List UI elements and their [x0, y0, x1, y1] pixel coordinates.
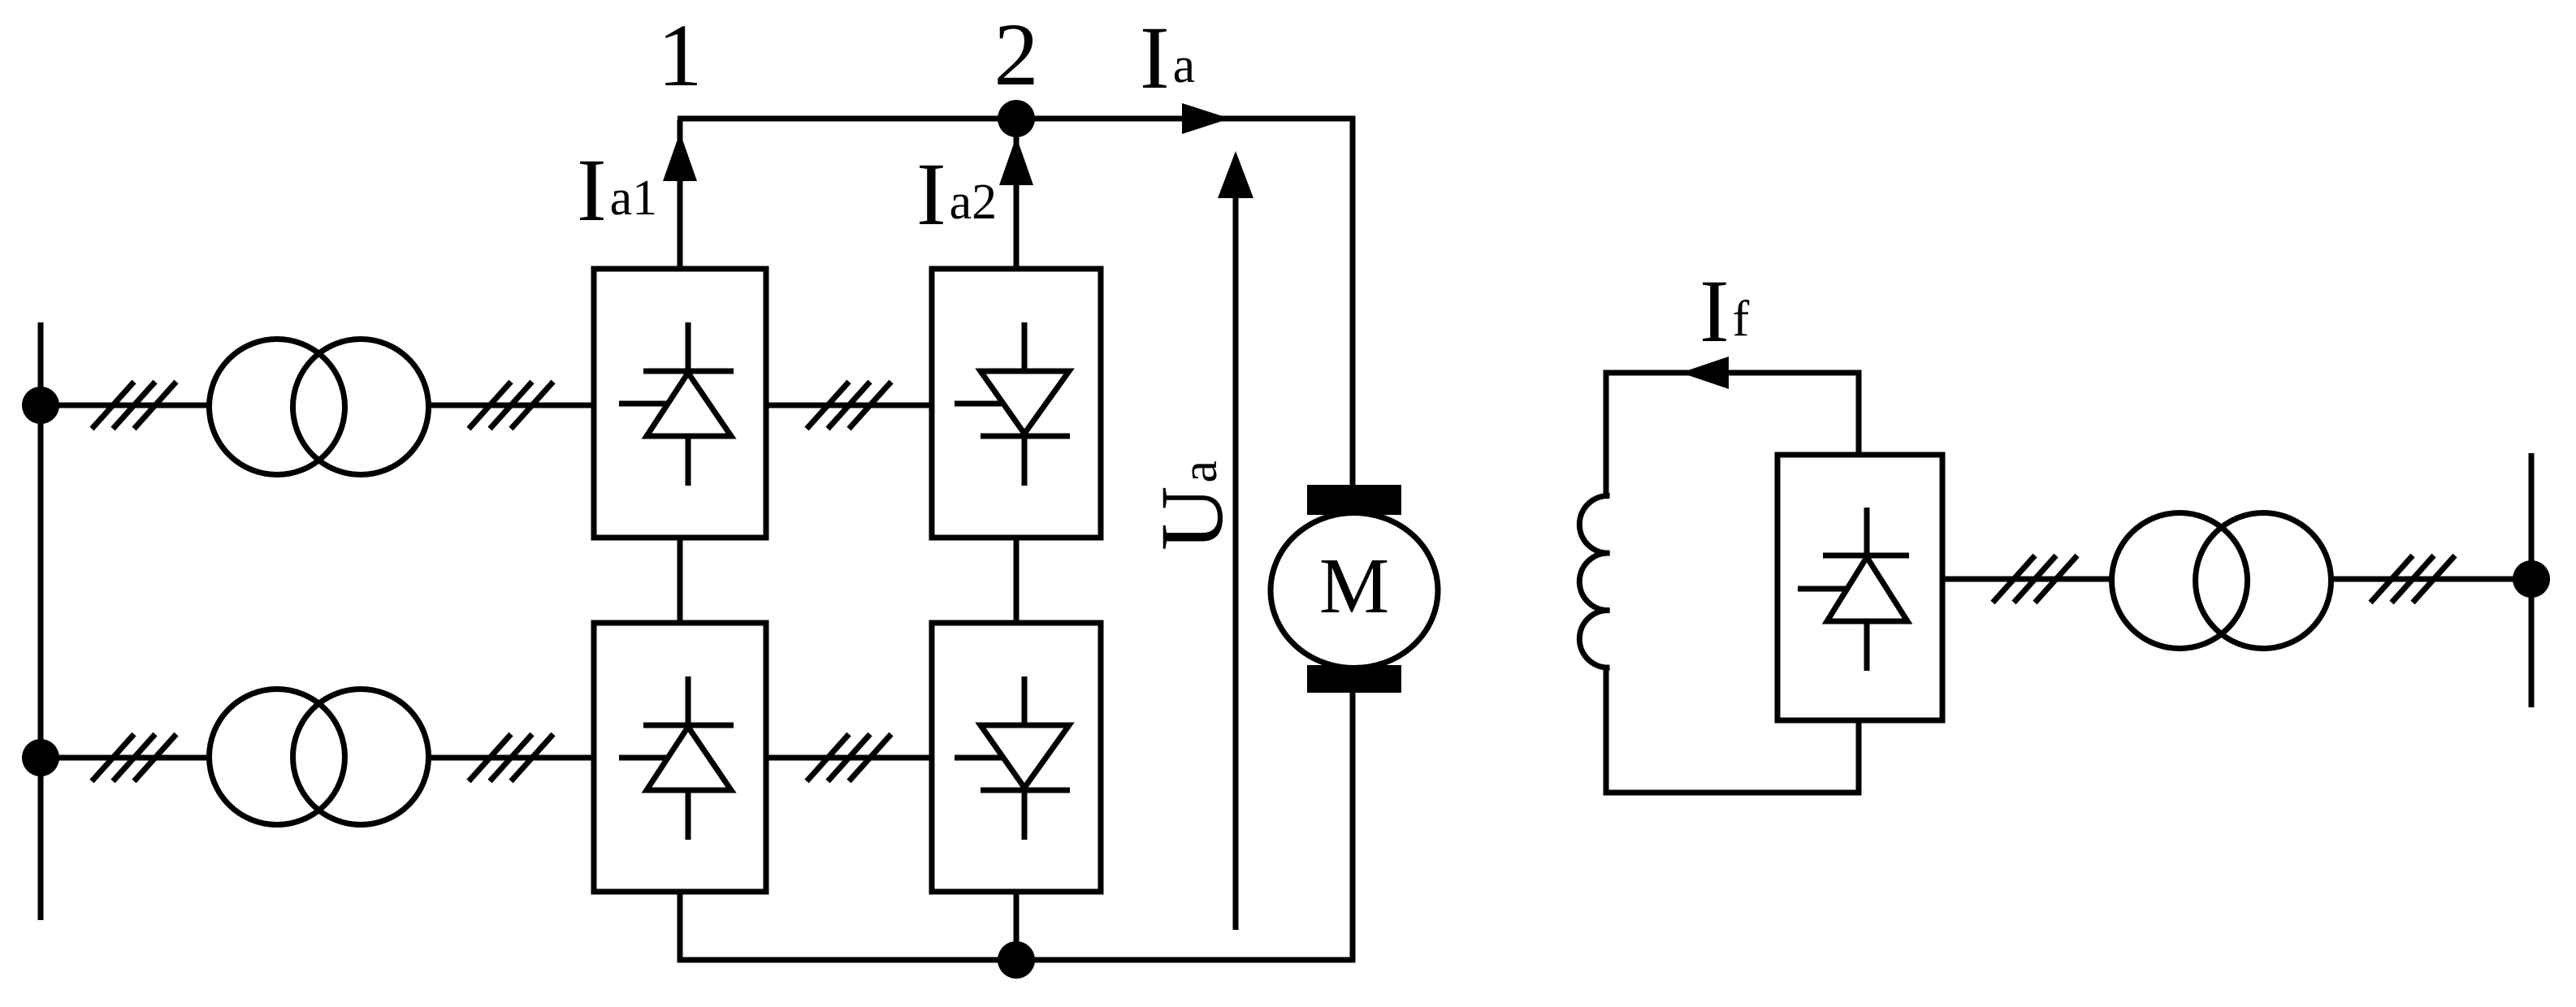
svg-text:1: 1: [658, 6, 703, 105]
converter block U1: [594, 269, 766, 538]
label Ia1: [577, 140, 657, 240]
thyristor U5 (pointing up): [1798, 508, 1909, 671]
wire field converter to right bus: [1942, 577, 2531, 582]
current arrow Ia2 (stem): [1014, 120, 1020, 269]
node label 1: [658, 6, 703, 105]
wire converter2-converter4 link: [1014, 538, 1020, 623]
motor label M: [1319, 542, 1389, 629]
junction dot left bus top: [22, 387, 59, 424]
wire converter1-converter3 link: [678, 538, 683, 623]
label Ia2: [916, 145, 997, 244]
hash marks (3-phase) T3-right bus: [2370, 555, 2455, 603]
motor brush top: [1307, 485, 1401, 515]
hash marks (3-phase) field converter-T3: [1993, 555, 2077, 603]
converter block U3: [594, 623, 766, 892]
hash marks (3-phase) converter1-converter2: [807, 382, 891, 429]
junction dot bottom wire: [998, 941, 1035, 979]
thyristor U4 (pointing down): [955, 676, 1070, 840]
label If: [1699, 261, 1750, 361]
transformer T3 (field): [2112, 513, 2331, 649]
junction dot right bus: [2513, 560, 2550, 598]
voltage arrow Ua (head): [1218, 151, 1253, 198]
hash marks (3-phase) bus-T2: [92, 734, 176, 781]
wire bus to converter 3 row (bottom): [41, 755, 594, 761]
junction dot left bus bottom: [22, 739, 59, 776]
label Ua (rotated): [1142, 460, 1241, 551]
motor brush bottom: [1307, 665, 1401, 693]
svg-text:2: 2: [994, 5, 1039, 104]
transformer T1 (top): [210, 339, 429, 475]
field loop wire with inductor (field winding): [1579, 373, 1859, 793]
hash marks (3-phase) bus-T1: [92, 382, 176, 429]
current arrow If (head): [1681, 357, 1729, 389]
wire converter 3 to converter 4: [766, 755, 932, 761]
wire bus to converter 1 row (top): [41, 403, 594, 408]
label Ia: [1140, 8, 1195, 107]
armature loop wire: converter bottoms to motor: [678, 119, 1353, 960]
field converter block U5: [1777, 455, 1942, 720]
hash marks (3-phase) T2-converter3: [469, 734, 553, 781]
thyristor U2 (pointing down): [955, 322, 1070, 486]
converter block U2: [932, 269, 1101, 538]
left AC bus bar: [38, 322, 44, 920]
voltage arrow Ua: [1233, 197, 1239, 930]
node 2 junction dot (top wire): [998, 100, 1035, 137]
svg-text:M: M: [1319, 542, 1389, 629]
current arrow Ia (head on top wire): [1182, 103, 1230, 134]
hash marks (3-phase) converter3-converter4: [807, 734, 891, 781]
right AC bus bar: [2529, 453, 2535, 707]
motor M: [1271, 513, 1438, 668]
thyristor U3 (pointing up): [619, 676, 734, 840]
current arrow Ia1 (stem): [678, 120, 683, 269]
converter block U4: [932, 623, 1101, 892]
current arrow Ia2 (head): [999, 136, 1033, 185]
wire converter4 bottom stub: [1014, 892, 1020, 960]
hash marks (3-phase) T1-converter1: [469, 382, 553, 429]
thyristor U1 (pointing up): [619, 322, 734, 486]
wire converter 1 to converter 2: [766, 403, 932, 408]
node label 2: [994, 5, 1039, 104]
transformer T2 (bottom): [210, 689, 429, 825]
current arrow Ia1 (head): [663, 132, 697, 181]
